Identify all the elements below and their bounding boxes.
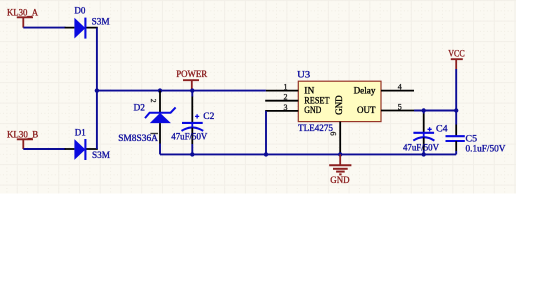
junction node VCC/C5: [454, 108, 458, 112]
svg-text:2: 2: [149, 99, 158, 103]
wire KL30_A to D0: [23, 27, 65, 29]
wire C2 to ground rail: [191, 144, 193, 154]
junction node POWER/C2/main wire: [190, 88, 194, 92]
svg-text:TLE4275: TLE4275: [298, 123, 333, 134]
wire U3 pin5 to VCC node: [414, 110, 456, 112]
pin 2 (RESET): [265, 100, 298, 102]
svg-text:47uF/50V: 47uF/50V: [171, 132, 207, 143]
svg-text:4: 4: [398, 82, 402, 91]
svg-text:2: 2: [284, 93, 288, 102]
svg-text:C2: C2: [203, 111, 214, 122]
ground rail wire: [160, 153, 456, 155]
svg-text:U3: U3: [297, 70, 310, 81]
pin 4 (Delay): [381, 90, 414, 92]
junction node pin3 wire/rail: [264, 152, 268, 156]
junction node C4/rail: [422, 152, 426, 156]
svg-text:1: 1: [284, 82, 288, 91]
diode D0: [65, 18, 98, 39]
schematic sheet background: [0, 0, 516, 194]
junction node at vertical bus and main wire: [95, 88, 99, 92]
svg-text:GND: GND: [330, 175, 349, 186]
svg-text:Delay: Delay: [354, 86, 376, 97]
zener diode D2: [145, 91, 176, 144]
wire main horizontal to U3 pin1: [97, 90, 266, 92]
wire U3 pin3 to ground rail: [265, 111, 267, 154]
pin 6 (GND bottom): [339, 122, 341, 155]
wire C5 to ground rail: [455, 151, 457, 154]
svg-text:C4: C4: [436, 124, 448, 135]
power port GND: [329, 154, 351, 186]
diode D1: [65, 139, 98, 160]
wire VCC to pin5 node and C5: [455, 69, 457, 125]
junction node pin6/rail: [338, 152, 342, 156]
svg-text:0.1uF/50V: 0.1uF/50V: [466, 144, 506, 155]
capacitor C5: [446, 125, 465, 152]
svg-text:D0: D0: [74, 6, 85, 17]
svg-text:POWER: POWER: [176, 69, 207, 80]
power port POWER: [176, 69, 207, 91]
port KL30_B: [7, 130, 39, 149]
svg-text:S3M: S3M: [92, 17, 110, 28]
svg-text:GND: GND: [304, 105, 321, 116]
junction node D2/main wire: [158, 88, 162, 92]
wire D0 cathode to D1 cathode (vertical bus): [96, 28, 98, 149]
svg-text:OUT: OUT: [357, 105, 376, 116]
wire C4 to ground rail: [423, 150, 425, 154]
pin 3 (GND): [265, 110, 298, 112]
svg-text:6: 6: [329, 132, 338, 136]
svg-text:47uF/50V: 47uF/50V: [403, 143, 439, 154]
capacitor C2: [182, 91, 204, 144]
svg-text:S3M: S3M: [92, 150, 110, 161]
power port VCC: [448, 49, 465, 69]
svg-text:VCC: VCC: [448, 49, 465, 60]
junction node C4 top: [422, 108, 426, 112]
pin 5 (OUT): [381, 110, 414, 112]
IC U3 TLE4275 body: [298, 81, 381, 121]
value SM8S36A (D2): [118, 133, 158, 144]
capacitor C4: [413, 111, 434, 151]
svg-text:D1: D1: [75, 127, 86, 138]
svg-text:D2: D2: [134, 103, 146, 114]
wire D2 anode to ground rail: [159, 144, 161, 155]
pin 1 (IN): [266, 90, 298, 92]
svg-text:SM8S36A: SM8S36A: [118, 133, 158, 144]
svg-text:GND: GND: [335, 95, 345, 115]
wire KL30_B to D1: [23, 148, 65, 150]
svg-text:3: 3: [284, 103, 288, 112]
svg-text:5: 5: [398, 102, 402, 111]
junction node C2/rail: [190, 152, 194, 156]
port KL30_A: [7, 8, 38, 28]
